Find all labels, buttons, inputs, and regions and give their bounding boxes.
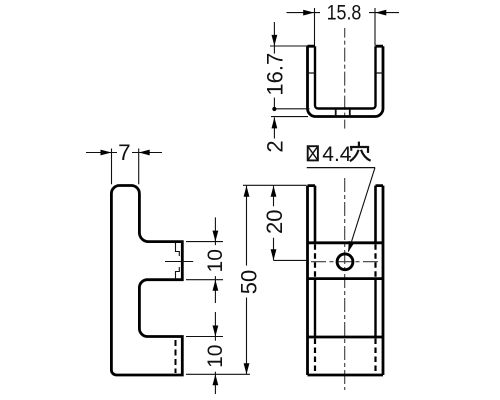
centerline top view [344,28,346,129]
dimension 2 line [273,117,275,138]
front view inner edges (mid band) [315,279,376,337]
wall top caps [308,45,384,48]
dimension 20 extension line [274,259,308,261]
svg-text:10: 10 [204,345,227,368]
leader arrow [348,241,354,252]
hole label: missing-glyph box [308,146,318,160]
leader line [348,168,375,252]
top tab seam marks lower [176,267,180,279]
dimension 16.7 line [273,22,275,109]
dimension 2 extension line [271,116,308,118]
top tab mid line [165,261,193,263]
dimension 15.8 extension lines [315,8,376,46]
U-channel outer outline [308,46,384,116]
dimension 20 line [273,186,275,261]
front view inner wall edges (top band) [315,186,376,243]
dimension 50 extension lines [243,184,307,186]
svg-text:15.8: 15.8 [327,1,362,25]
front view outer edges [308,186,384,375]
svg-text:50: 50 [237,270,262,294]
dimension 50 line [246,186,248,375]
dimension 10 (bottom tab) line [214,312,216,394]
svg-text:16.7: 16.7 [263,53,288,96]
svg-text:4.4: 4.4 [322,143,352,166]
top tab seam marks upper [176,243,180,256]
hole [337,254,353,270]
front view wall top caps [308,184,384,187]
dimension 7 line [86,152,162,154]
dimension 16.7 extension lines [270,45,308,47]
leader underline [307,167,375,169]
dimension 15.8 line [287,12,400,14]
svg-text:10: 10 [204,249,227,272]
svg-text:2: 2 [262,140,287,152]
svg-text:7: 7 [118,140,131,165]
bottom tab hidden line [175,340,177,373]
front view centerline vertical [344,178,346,390]
dimension 10 (bottom tab) extension lines [186,336,223,338]
svg-text:20: 20 [262,209,287,233]
bottom seam ticks [336,109,350,116]
front view hidden edges [315,244,376,373]
dimension 10 (top tab) line [214,217,216,303]
front view horizontal edges [308,243,384,337]
U-channel inner outline [315,46,376,108]
hole label kanji ana [350,142,371,162]
side view outline [111,186,182,376]
dimension 7 extension lines [112,149,139,185]
dimension 10 (top tab) extension lines [186,242,223,280]
hole centerline horizontal [311,261,380,263]
wall seam ticks [308,72,384,74]
dimension 15.8 arrows [303,10,314,16]
